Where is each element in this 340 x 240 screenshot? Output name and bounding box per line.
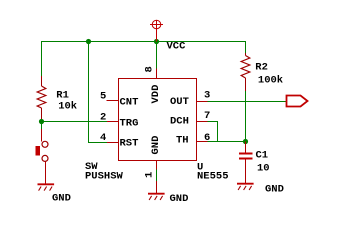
svg-text:DCH: DCH (170, 115, 189, 127)
svg-text:OUT: OUT (170, 96, 189, 108)
ground symbol right (237, 184, 254, 190)
svg-text:7: 7 (204, 110, 210, 122)
wire TRG horizontal (42, 121, 108, 123)
svg-text:RST: RST (120, 137, 139, 149)
power symbol VCC (150, 20, 163, 41)
svg-text:4: 4 (100, 132, 106, 144)
svg-text:5: 5 (100, 91, 106, 103)
port OUT connector (287, 96, 308, 107)
switch SW pin bottom stub (45, 161, 47, 183)
svg-text:2: 2 (100, 112, 106, 124)
switch SW pin top stub (41, 129, 43, 142)
wire DCH loop (208, 122, 218, 142)
switch actuator (35, 146, 39, 156)
svg-text:GND: GND (265, 184, 284, 196)
node junction rail/RST drop (86, 39, 91, 44)
resistor R1 (37, 76, 46, 122)
svg-text:TH: TH (176, 135, 189, 147)
wire rail to R2 (245, 42, 247, 54)
node junction TH/R2/C1 (243, 139, 248, 144)
wire pin8 vertical (156, 42, 158, 69)
wire pin1 to ground (156, 170, 158, 182)
svg-text:GND: GND (150, 136, 162, 155)
svg-text:PUSHSW: PUSHSW (85, 171, 124, 183)
pin 7 stub DCH (197, 121, 208, 123)
svg-text:GND: GND (52, 192, 71, 204)
wire OUT horizontal (208, 101, 288, 103)
IC U NE555 body (119, 79, 197, 161)
wire SW top (41, 122, 43, 130)
svg-text:10: 10 (257, 163, 270, 175)
capacitor C1 (245, 142, 247, 153)
pin 3 stub OUT (197, 101, 208, 103)
svg-text:10k: 10k (58, 101, 77, 113)
wire TH horizontal (208, 141, 247, 143)
pin 4 stub RST (107, 142, 119, 144)
svg-text:R2: R2 (255, 61, 268, 73)
ground symbol middle (148, 194, 165, 200)
svg-text:R1: R1 (56, 89, 69, 101)
svg-text:GND: GND (170, 193, 189, 205)
pin 6 stub TH (197, 141, 208, 143)
pin 2 stub TRG (107, 121, 119, 123)
svg-text:NE555: NE555 (197, 171, 229, 183)
pin 1 stub GND (156, 161, 158, 170)
svg-text:VDD: VDD (150, 85, 162, 104)
ground symbol left (38, 184, 55, 190)
svg-text:8: 8 (144, 66, 156, 72)
svg-text:1: 1 (144, 172, 156, 178)
resistor R2 (241, 53, 250, 91)
pin 5 stub CNT (107, 100, 119, 102)
svg-text:CNT: CNT (120, 96, 139, 108)
svg-text:6: 6 (204, 132, 210, 144)
pin 8 stub (156, 69, 158, 79)
ground stem middle (156, 181, 158, 194)
svg-text:3: 3 (204, 90, 210, 102)
svg-text:VCC: VCC (167, 41, 187, 53)
wire left drop to R1 (41, 42, 43, 77)
svg-text:100k: 100k (258, 75, 283, 87)
switch SW PUSHSW (42, 141, 48, 161)
wire drop to RST (89, 41, 108, 143)
node junction rail/VCC stub (154, 39, 159, 44)
wire R2 down to TH node (245, 91, 247, 141)
node junction R1/TRG/SW (39, 119, 44, 124)
wire VCC top rail (41, 41, 246, 43)
svg-text:TRG: TRG (120, 117, 139, 129)
svg-text:C1: C1 (256, 150, 269, 162)
